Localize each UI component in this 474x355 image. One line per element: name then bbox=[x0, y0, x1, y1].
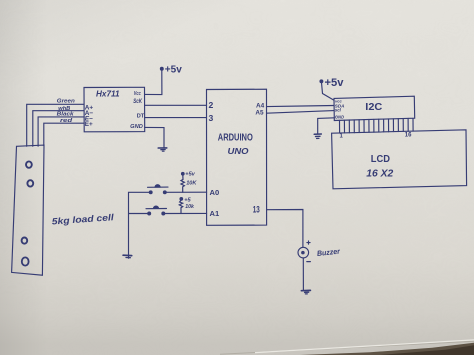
svg-text:2: 2 bbox=[209, 100, 214, 110]
svg-text:Green: Green bbox=[57, 98, 75, 104]
svg-text:A5: A5 bbox=[255, 110, 264, 117]
svg-text:UNO: UNO bbox=[228, 146, 249, 156]
svg-text:ARDUINO: ARDUINO bbox=[218, 132, 253, 143]
svg-text:GND: GND bbox=[335, 115, 344, 120]
svg-text:Hx711: Hx711 bbox=[96, 88, 120, 98]
svg-text:LCD: LCD bbox=[371, 154, 390, 165]
svg-text:13: 13 bbox=[253, 204, 260, 214]
svg-text:A1: A1 bbox=[210, 209, 220, 218]
svg-text:16: 16 bbox=[405, 132, 412, 138]
svg-text:A0: A0 bbox=[210, 188, 220, 197]
svg-text:3: 3 bbox=[209, 113, 214, 123]
svg-text:10K: 10K bbox=[186, 181, 197, 187]
svg-text:+5v: +5v bbox=[165, 63, 182, 75]
svg-text:DT: DT bbox=[137, 113, 145, 119]
svg-text:+5v: +5v bbox=[325, 77, 345, 89]
svg-text:ScK: ScK bbox=[133, 98, 142, 105]
svg-text:+5: +5 bbox=[184, 197, 191, 203]
svg-text:Vcc: Vcc bbox=[134, 91, 141, 97]
svg-text:Black: Black bbox=[57, 111, 75, 117]
svg-text:10k: 10k bbox=[185, 204, 195, 210]
svg-text:A4: A4 bbox=[256, 103, 265, 110]
svg-text:red: red bbox=[60, 118, 73, 124]
svg-text:16 X2: 16 X2 bbox=[366, 168, 393, 180]
svg-text:GND: GND bbox=[130, 124, 143, 130]
svg-text:E+: E+ bbox=[85, 121, 93, 128]
svg-text:scl: scl bbox=[335, 108, 342, 113]
svg-text:I2C: I2C bbox=[365, 101, 382, 113]
svg-text:+5v: +5v bbox=[185, 172, 195, 178]
